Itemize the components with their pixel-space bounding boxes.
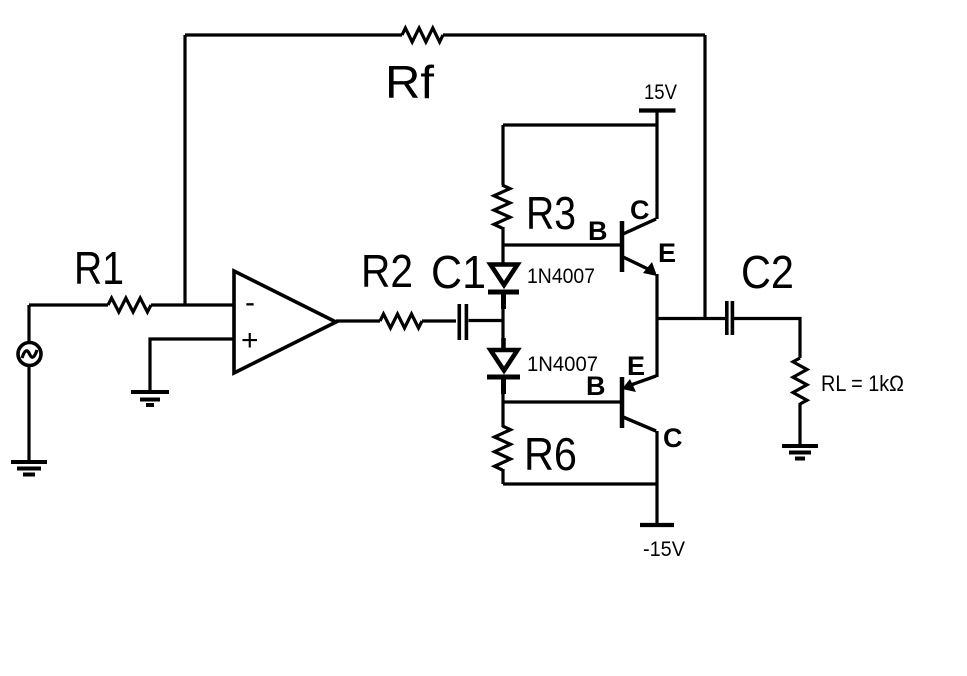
source V1 AC [18, 343, 41, 366]
transistor Q1 NPN [620, 221, 625, 272]
wire RL to ground [798, 403, 801, 446]
wire supply to Q1 collector [655, 111, 658, 219]
svg-text:C1: C1 [431, 246, 486, 298]
svg-text:+: + [241, 324, 259, 357]
svg-text:B: B [588, 216, 608, 246]
wire column top segment [501, 125, 504, 185]
wire base 2 to Q2 [503, 400, 620, 403]
resistor R1 [108, 298, 151, 312]
wire base 1 to Q1 [503, 243, 620, 246]
diode D2 1N4007 [491, 350, 518, 371]
capacitor C1 [457, 304, 461, 340]
wire input horizontal from source to R1 [29, 303, 108, 306]
resistor R6 [495, 426, 511, 470]
svg-text:E: E [627, 351, 645, 381]
ground G2 [131, 390, 169, 394]
svg-text:15V: 15V [644, 81, 677, 104]
wire R1 to op-amp inverting input [151, 303, 234, 306]
wire Q2 emitter up to output node [655, 319, 658, 378]
diode D1 1N4007 [491, 265, 518, 286]
svg-text:R1: R1 [74, 242, 124, 294]
svg-text:E: E [658, 238, 676, 268]
svg-text:C2: C2 [741, 246, 794, 298]
svg-text:R2: R2 [361, 245, 413, 297]
svg-text:B: B [586, 371, 606, 401]
svg-text:-15V: -15V [643, 538, 685, 561]
wire C2 to RL [734, 319, 800, 359]
ground G3 [782, 444, 818, 448]
resistor R2 [380, 314, 422, 328]
wire R6 to bottom rail [501, 469, 504, 484]
wire output node to C2 [657, 317, 725, 320]
transistor Q2 PNP [620, 377, 625, 428]
resistor R3 [494, 185, 510, 228]
power +15V supply bar [639, 108, 676, 112]
wire R3 to diode D1 [501, 227, 504, 266]
power -15V supply bar [640, 523, 674, 527]
wire top feedback right segment [443, 33, 705, 36]
wire op-amp output to R2 [336, 319, 380, 322]
svg-text:RL = 1kΩ: RL = 1kΩ [821, 371, 904, 396]
svg-text:1N4007: 1N4007 [527, 265, 595, 288]
wire source to ground [27, 366, 30, 462]
wire D2 to base 2 node [501, 394, 504, 427]
resistor Rf [402, 28, 443, 42]
svg-text:-: - [245, 286, 255, 319]
resistor RL [793, 358, 807, 404]
wire Q1 emitter down to output node [655, 274, 658, 319]
capacitor C2 [725, 301, 729, 335]
ground G1 [11, 460, 47, 464]
svg-text:C: C [663, 423, 683, 453]
op-amp U1 [234, 271, 336, 373]
svg-text:Rf: Rf [385, 56, 434, 108]
wire C1 to diode column [469, 319, 504, 322]
svg-text:C: C [630, 195, 650, 225]
wire D1 to C1 node [501, 309, 504, 351]
wire bottom rail horizontal [503, 482, 657, 485]
wire top feedback left segment [185, 33, 402, 36]
wire R2 to C1 [422, 319, 456, 322]
node A inverting input junction [183, 35, 186, 305]
svg-text:R3: R3 [526, 187, 576, 239]
wire Q2 collector to -15V [655, 431, 658, 525]
wire top rail horizontal [503, 123, 657, 126]
wire feedback right vertical to output node [703, 35, 706, 319]
wire op-amp non-inverting input [150, 339, 234, 392]
wire source vertical upper [27, 305, 30, 342]
svg-text:R6: R6 [524, 428, 577, 480]
